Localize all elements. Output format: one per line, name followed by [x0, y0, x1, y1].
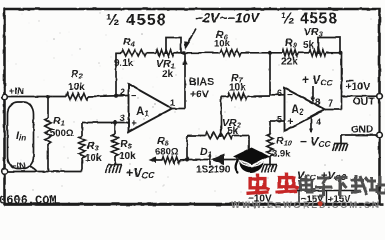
wire VR2 loop right [248, 136, 250, 160]
svg-text:500Ω: 500Ω [50, 128, 74, 139]
svg-text:680Ω: 680Ω [155, 147, 179, 158]
svg-text:GND: GND [351, 125, 373, 136]
wire +IN rail to A1 pin2 [7, 96, 66, 98]
current source Iin [8, 102, 34, 169]
watermark char zhan [369, 176, 385, 193]
svg-text:10k: 10k [214, 39, 231, 50]
terminal +IN [2, 94, 8, 100]
node A1 output feedback [182, 51, 186, 55]
potentiometer VR2 5k [205, 132, 233, 138]
wire R9 to VR3 [298, 52, 309, 54]
op-amp A2 [285, 88, 326, 131]
node feedback junction pin2 [114, 94, 118, 98]
wire R6 to R9 [241, 52, 282, 54]
resistor R8 680 [162, 157, 180, 163]
wire feedback riser [115, 52, 117, 96]
svg-text:1S2190: 1S2190 [196, 165, 231, 176]
svg-text:−: − [131, 91, 137, 102]
svg-text:6: 6 [277, 88, 282, 98]
wire A2 output to OUT [325, 109, 342, 111]
wire node to R6 [184, 52, 220, 54]
watermark char zi [315, 178, 332, 196]
resistor R9 22k [282, 50, 298, 56]
svg-text:+: + [131, 119, 137, 130]
watermark char dian [300, 175, 314, 192]
svg-text:WWW.EEWORLD.COM.CN: WWW.EEWORLD.COM.CN [231, 200, 380, 210]
node R5 top [113, 121, 117, 125]
svg-text:10k: 10k [85, 153, 102, 164]
watermark graduation cap [233, 148, 270, 165]
wire interstage drop to pin6 [269, 53, 271, 96]
svg-text:22k: 22k [281, 57, 298, 68]
wire A1 output riser pin4 net [172, 108, 185, 110]
svg-text:10k: 10k [119, 151, 136, 162]
svg-text:−2V~−10V: −2V~−10V [195, 11, 260, 26]
watermark bug char 2 [275, 173, 298, 193]
svg-text:−: − [287, 90, 293, 101]
wire R7 left drop to VR2 wiper [220, 96, 222, 129]
svg-text:3: 3 [120, 113, 125, 123]
svg-text:3.9k: 3.9k [272, 149, 291, 160]
ground below R10 [264, 164, 277, 166]
wire A1 pin3 net [82, 122, 128, 124]
resistor R6 10k [220, 50, 241, 56]
svg-text:OUT: OUT [353, 96, 376, 108]
wire VR1 to node [174, 52, 184, 54]
svg-text:+10V: +10V [346, 81, 371, 93]
svg-text:5k: 5k [227, 126, 239, 137]
watermark bug char 1 [246, 174, 269, 194]
svg-text:1: 1 [170, 98, 175, 108]
svg-text:4: 4 [316, 117, 321, 127]
op-amp A1 [129, 84, 173, 132]
wire pin8 +Vcc [312, 86, 314, 102]
resistor R3 10k [79, 136, 85, 158]
potentiometer VR3 5k [309, 50, 326, 56]
terminal -IN [2, 169, 8, 175]
svg-text:½ 4558: ½ 4558 [106, 12, 167, 29]
resistor R10 3.9k [267, 134, 273, 156]
svg-text:+: + [288, 117, 294, 128]
node VR3 right [339, 51, 343, 55]
resistor R5 10k [112, 134, 118, 156]
svg-text:5: 5 [277, 115, 282, 125]
wire VR3 to output node [326, 52, 342, 54]
diode D1 1S2190 [187, 159, 211, 161]
watermark char xia [334, 178, 348, 197]
watermark char zai [351, 175, 369, 195]
wire GND to ground [341, 134, 376, 136]
svg-text:10k: 10k [68, 82, 85, 93]
svg-text:7: 7 [328, 98, 333, 108]
resistor R1 500 [45, 118, 51, 144]
svg-text:10k: 10k [229, 83, 246, 94]
svg-text:2k: 2k [162, 69, 174, 80]
wire -IN rail [7, 171, 82, 173]
svg-text:0606.COM: 0606.COM [0, 194, 57, 208]
ground below R5 [108, 164, 122, 166]
border frame [5, 9, 380, 96]
svg-text:8: 8 [315, 97, 320, 107]
svg-text:BIAS: BIAS [189, 76, 214, 88]
svg-text:+IN: +IN [9, 86, 24, 97]
svg-text:½ 4558: ½ 4558 [281, 11, 338, 28]
wire R4 to VR1 [146, 52, 156, 54]
wire A2 pin5 net [270, 120, 284, 122]
wire pin4 -Vcc [310, 117, 312, 132]
terminal OUT [377, 93, 383, 99]
ground GND net [335, 143, 348, 145]
resistor R2 10k [66, 93, 88, 99]
resistor R7 10k [228, 93, 247, 99]
node interstage [268, 51, 272, 55]
node R8 D1 junction [185, 158, 189, 162]
svg-text:9.1k: 9.1k [114, 58, 134, 69]
wire VR2 loop left [186, 136, 188, 160]
node R1 top [46, 95, 50, 99]
terminal GND [377, 132, 383, 138]
potentiometer VR1 2k [156, 50, 174, 56]
svg-text:5k: 5k [303, 40, 315, 51]
svg-text:2: 2 [120, 87, 125, 97]
svg-text:+6V: +6V [190, 89, 209, 101]
resistor R4 9.1k [121, 50, 146, 56]
